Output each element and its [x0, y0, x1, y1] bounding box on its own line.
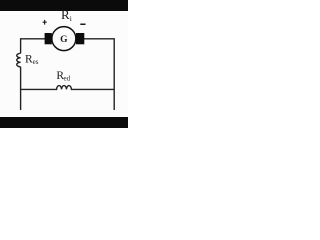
svg-text:R: R	[61, 7, 70, 22]
svg-text:es: es	[33, 58, 39, 66]
svg-text:G: G	[60, 35, 68, 45]
svg-text:ed: ed	[64, 75, 71, 83]
svg-text:i: i	[70, 14, 72, 23]
